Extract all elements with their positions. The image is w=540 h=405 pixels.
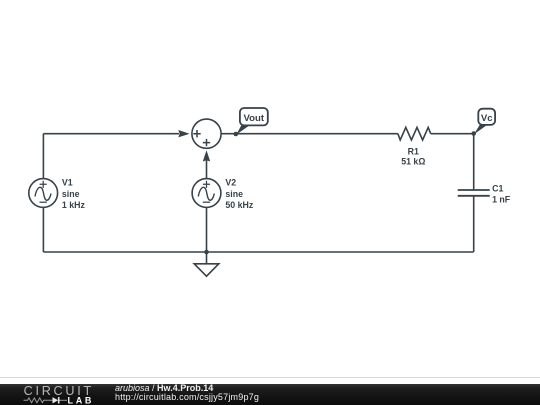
wire resistor to Vc node bbox=[431, 133, 474, 135]
svg-text:1 nF: 1 nF bbox=[492, 195, 511, 205]
svg-text:50 kHz: 50 kHz bbox=[225, 200, 253, 210]
voltage source V2 bbox=[192, 179, 221, 208]
wire summing to resistor horizontal bbox=[221, 133, 398, 135]
resistor R1 bbox=[398, 127, 431, 140]
footer bar bbox=[0, 384, 540, 405]
svg-text:51 kΩ: 51 kΩ bbox=[401, 157, 425, 167]
junction ground node bbox=[204, 250, 209, 255]
svg-text:LAB: LAB bbox=[68, 396, 95, 405]
svg-text:Vout: Vout bbox=[243, 113, 264, 124]
node Vout flag bbox=[234, 108, 268, 136]
svg-text:sine: sine bbox=[62, 189, 80, 199]
separator hairline bbox=[0, 377, 540, 378]
wire top-left horizontal bbox=[43, 133, 179, 135]
wire capacitor bottom vertical bbox=[473, 196, 475, 252]
node Vc flag bbox=[471, 109, 495, 136]
svg-text:R1: R1 bbox=[408, 146, 419, 156]
arrowhead into summing left bbox=[178, 130, 189, 137]
footer title text bbox=[115, 384, 259, 403]
wire left vertical bbox=[42, 134, 44, 179]
capacitor C1 bbox=[458, 190, 490, 196]
svg-text:sine: sine bbox=[225, 189, 243, 199]
svg-text:V2: V2 bbox=[225, 178, 236, 188]
svg-text:Vc: Vc bbox=[481, 113, 493, 124]
voltage source V1 bbox=[29, 179, 58, 208]
wire Vc node down to capacitor bbox=[473, 134, 475, 190]
wire V2 bottom vertical bbox=[206, 207, 208, 252]
svg-text:1 kHz: 1 kHz bbox=[62, 200, 86, 210]
svg-text:V1: V1 bbox=[62, 178, 73, 188]
svg-text:C1: C1 bbox=[492, 184, 503, 194]
summing junction bbox=[192, 119, 221, 148]
arrowhead into summing bottom bbox=[203, 150, 210, 161]
wire bottom horizontal bbox=[43, 251, 473, 253]
wire V2 to summing vertical bbox=[206, 160, 208, 179]
CircuitLab logo bbox=[16, 384, 100, 405]
ground bbox=[194, 252, 219, 276]
wire V1 bottom vertical bbox=[42, 207, 44, 252]
